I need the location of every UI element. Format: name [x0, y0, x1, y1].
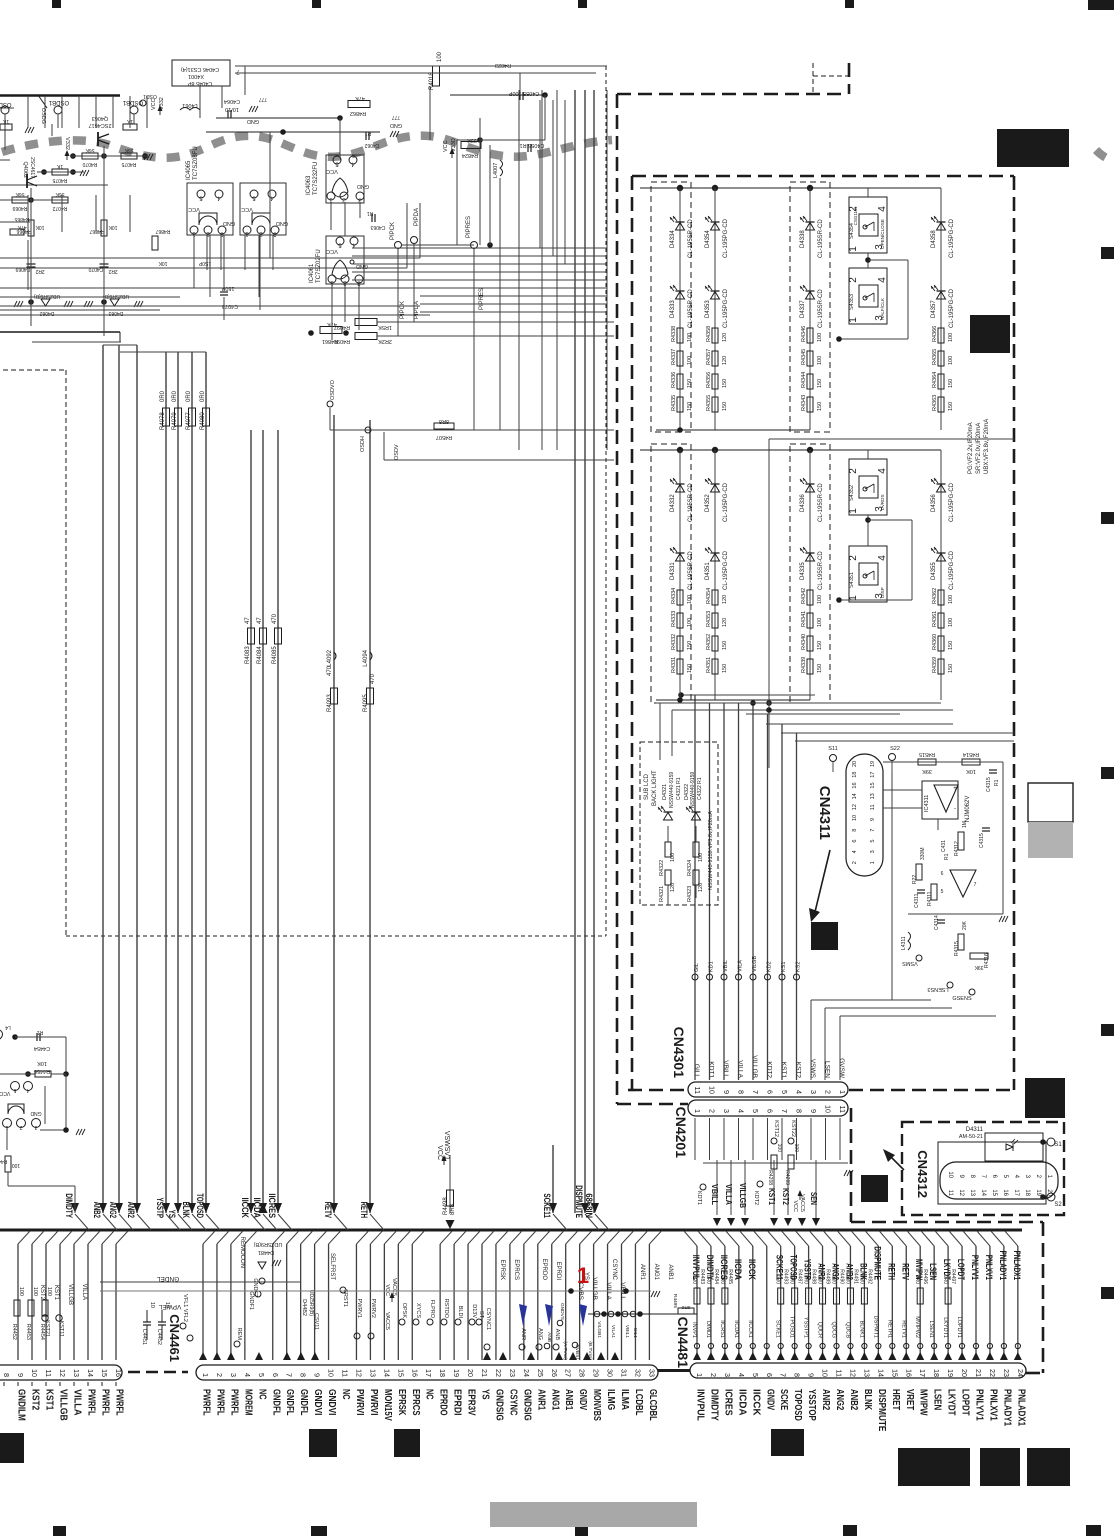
svg-text:8: 8: [2, 1373, 11, 1377]
svg-text:12: 12: [58, 1369, 67, 1377]
svg-text:5: 5: [257, 1373, 266, 1377]
svg-text:0R0: 0R0: [200, 390, 206, 402]
svg-text:10: 10: [821, 1369, 830, 1377]
svg-text:NJM062V: NJM062V: [965, 796, 971, 822]
svg-text:VSMS: VSMS: [902, 960, 918, 966]
svg-text:GIL: GIL: [694, 963, 700, 972]
svg-text:11: 11: [838, 1106, 847, 1113]
svg-text:24: 24: [1016, 1369, 1025, 1377]
svg-text:RETH: RETH: [359, 1202, 369, 1218]
svg-text:1: 1: [201, 1373, 210, 1377]
svg-text:C4070: C4070: [88, 266, 103, 272]
svg-text:REMOCON: REMOCON: [239, 1237, 245, 1268]
svg-text:R4346: R4346: [801, 326, 807, 342]
svg-text:PNLYV1: PNLYV1: [974, 1389, 985, 1421]
svg-text:CL-195SR-CD: CL-195SR-CD: [688, 219, 694, 258]
svg-text:0R0: 0R0: [186, 390, 192, 402]
svg-text:16: 16: [114, 1369, 123, 1377]
svg-text:OSDB1: OSDB1: [48, 99, 69, 105]
svg-text:PIPDA: PIPDA: [414, 301, 420, 319]
svg-text:EPRSK: EPRSK: [396, 1389, 407, 1416]
svg-text:R4334: R4334: [671, 588, 677, 604]
svg-text:LCDBL: LCDBL: [633, 1389, 644, 1416]
svg-text:VCC: VCC: [0, 1090, 10, 1096]
svg-text:L4092: L4092: [327, 649, 333, 666]
svg-text:R4488: R4488: [811, 1269, 817, 1284]
svg-text:R4354: R4354: [706, 588, 712, 604]
svg-text:R4070: R4070: [82, 161, 97, 167]
svg-text:C4062: C4062: [364, 142, 379, 148]
svg-text:TC7SZ02FU: TC7SZ02FU: [316, 249, 322, 283]
svg-text:2: 2: [848, 468, 859, 474]
svg-text:0R0: 0R0: [172, 390, 178, 402]
svg-text:C4315: C4315: [986, 777, 992, 792]
svg-text:DISPMUTE: DISPMUTE: [574, 1185, 584, 1218]
svg-text:150: 150: [948, 402, 954, 411]
svg-text:5: 5: [870, 840, 876, 843]
svg-text:47: 47: [257, 617, 263, 624]
svg-text:C4321 R1: C4321 R1: [676, 777, 682, 800]
svg-text:GNDF1: GNDF1: [248, 1291, 254, 1310]
svg-text:100: 100: [46, 1287, 52, 1296]
svg-text:R4335: R4335: [671, 395, 677, 411]
svg-text:R4515: R4515: [919, 751, 935, 757]
svg-text:0R0: 0R0: [719, 1275, 725, 1284]
svg-text:150: 150: [948, 641, 954, 650]
svg-text:R4331: R4331: [671, 657, 677, 673]
svg-text:29: 29: [592, 1369, 601, 1377]
svg-text:BLNK1: BLNK1: [858, 1321, 864, 1338]
svg-text:17: 17: [424, 1369, 433, 1377]
svg-text:R4069: R4069: [12, 205, 27, 211]
svg-text:D44B2: D44B2: [301, 1299, 307, 1316]
svg-text:10K: 10K: [37, 1060, 47, 1066]
svg-text:CL-195PG-CD: CL-195PG-CD: [723, 482, 729, 522]
svg-text:CL-195SR-CD: CL-195SR-CD: [818, 483, 824, 522]
svg-text:PIPRES: PIPRES: [479, 288, 485, 310]
svg-text:CL-195SR-CD: CL-195SR-CD: [818, 219, 824, 258]
svg-text:VACC5: VACC5: [391, 1278, 397, 1296]
svg-text:V332: V332: [64, 137, 70, 150]
svg-text:D4321: D4321: [662, 784, 668, 800]
svg-text:VBIL1: VBIL1: [624, 1325, 630, 1338]
svg-text:LKYDT1: LKYDT1: [942, 1317, 948, 1338]
svg-text:9: 9: [722, 1090, 731, 1094]
svg-text:NSSW440-9159:VF3.6v,IF20mA: NSSW440-9159:VF3.6v,IF20mA: [708, 811, 714, 890]
svg-text:ANG2: ANG2: [834, 1389, 845, 1410]
svg-text:PNLADX1: PNLADX1: [1015, 1389, 1026, 1426]
svg-text:GNDSIG: GNDSIG: [521, 1389, 532, 1421]
svg-text:11: 11: [693, 1087, 702, 1094]
svg-text:SCKE1: SCKE1: [775, 1320, 781, 1338]
svg-text:PNLADY1: PNLADY1: [1001, 1389, 1012, 1426]
svg-text:ANG: ANG: [537, 1328, 543, 1340]
svg-text:1R5K: 1R5K: [378, 324, 392, 330]
svg-text:VCC: VCC: [326, 248, 338, 254]
svg-text:TOPOSD: TOPOSD: [792, 1389, 803, 1421]
svg-text:EPRDI: EPRDI: [555, 1262, 561, 1281]
svg-text:IC4311: IC4311: [924, 795, 930, 812]
svg-text:KDT2: KDT2: [753, 1191, 759, 1205]
svg-text:0R0: 0R0: [844, 1275, 850, 1284]
svg-text:D4353: D4353: [705, 300, 711, 318]
svg-text:6: 6: [766, 1090, 775, 1094]
svg-text:3: 3: [34, 1124, 37, 1130]
svg-text:CL-195PG-CD: CL-195PG-CD: [949, 550, 955, 590]
svg-text:EPRCS: EPRCS: [513, 1259, 519, 1280]
svg-text:KDT2: KDT2: [766, 1061, 773, 1078]
svg-text:RETV: RETV: [900, 1263, 910, 1280]
svg-text:OPSK: OPSK: [401, 1303, 407, 1319]
svg-text:4: 4: [877, 277, 888, 283]
svg-text:16: 16: [904, 1369, 913, 1377]
svg-text:L4311: L4311: [901, 936, 907, 950]
svg-text:8R8: 8R8: [439, 418, 449, 424]
svg-text:R4337: R4337: [671, 349, 677, 365]
svg-text:TC7S232FU: TC7S232FU: [313, 162, 319, 195]
svg-text:10: 10: [708, 1086, 717, 1094]
svg-text:YSSTOP: YSSTOP: [806, 1389, 817, 1421]
svg-text:120: 120: [722, 595, 728, 604]
svg-text:EPRDO: EPRDO: [541, 1259, 547, 1281]
svg-text:150: 150: [687, 379, 693, 388]
svg-text:120: 120: [698, 883, 704, 892]
svg-text:CL-195SR-CD: CL-195SR-CD: [688, 483, 694, 522]
svg-text:20K: 20K: [962, 920, 968, 930]
svg-text:C431: C431: [941, 840, 947, 852]
svg-text:31: 31: [620, 1369, 629, 1377]
svg-text:R4359: R4359: [932, 657, 938, 673]
svg-text:D4355: D4355: [931, 562, 937, 580]
svg-text:YS: YS: [167, 1210, 177, 1218]
svg-text:PWRFL: PWRFL: [201, 1389, 212, 1416]
svg-text:2: 2: [709, 1373, 718, 1377]
svg-text:R4342: R4342: [801, 588, 807, 604]
svg-text:R4097: R4097: [334, 324, 350, 330]
svg-text:17: 17: [918, 1369, 927, 1377]
svg-text:VILLA: VILLA: [72, 1389, 83, 1416]
svg-text:5: 5: [780, 1090, 789, 1094]
svg-text:R4495: R4495: [672, 1294, 678, 1308]
svg-text:ANG2: ANG2: [108, 1202, 118, 1218]
svg-text:D4354: D4354: [705, 230, 711, 248]
svg-text:RETH: RETH: [886, 1263, 896, 1280]
svg-text:18: 18: [852, 772, 858, 778]
svg-text:150: 150: [817, 641, 823, 650]
svg-text:10K: 10K: [35, 224, 45, 230]
svg-text:KST22: KST22: [790, 1120, 796, 1137]
svg-text:4: 4: [737, 1373, 746, 1377]
svg-text:VPWEL: VPWEL: [158, 1303, 181, 1310]
svg-text:CN4481: CN4481: [675, 1317, 691, 1369]
svg-text:R4311: R4311: [927, 891, 933, 906]
svg-text:DIMD1: DIMD1: [705, 1321, 711, 1338]
svg-text:2: 2: [848, 277, 859, 283]
svg-text:LOPDT1: LOPDT1: [956, 1317, 962, 1338]
svg-text:19: 19: [452, 1369, 461, 1377]
svg-text:VCC: VCC: [151, 98, 157, 110]
svg-text:VILLA: VILLA: [724, 1184, 733, 1205]
svg-text:R4357: R4357: [706, 349, 712, 365]
svg-text:GND: GND: [357, 183, 369, 189]
svg-text:CN4301: CN4301: [671, 1027, 687, 1079]
svg-text:100: 100: [793, 1144, 799, 1153]
svg-text:AM-50-21: AM-50-21: [959, 1134, 983, 1140]
svg-text:11: 11: [341, 1370, 350, 1377]
svg-text:ANG1: ANG1: [653, 1264, 659, 1281]
svg-text:CSG1111: CSG1111: [853, 206, 858, 225]
svg-text:7: 7: [870, 829, 876, 832]
svg-text:R4492: R4492: [866, 1269, 872, 1284]
svg-text:PWRFL: PWRFL: [228, 1389, 239, 1416]
svg-text:S1: S1: [1054, 1142, 1062, 1148]
svg-text:PNLADX1: PNLADX1: [1012, 1251, 1022, 1280]
svg-text:16: 16: [410, 1369, 419, 1377]
svg-text:100: 100: [948, 595, 954, 604]
svg-text:3: 3: [723, 1373, 732, 1377]
svg-text:4: 4: [737, 1109, 746, 1113]
svg-text:ANB2: ANB2: [848, 1389, 859, 1410]
svg-text:CVBS1: CVBS1: [574, 1344, 580, 1360]
svg-text:KST11: KST11: [58, 1321, 64, 1337]
svg-text:R4487: R4487: [797, 1269, 803, 1284]
svg-text:GND: GND: [30, 1110, 42, 1116]
svg-text:1: 1: [848, 246, 859, 252]
svg-text:EPRSK: EPRSK: [499, 1260, 505, 1280]
svg-text:KST2: KST2: [795, 1062, 802, 1079]
svg-text:100: 100: [687, 595, 693, 604]
svg-text:28: 28: [578, 1369, 587, 1377]
svg-text:15: 15: [100, 1369, 109, 1377]
svg-text:VILA1: VILA1: [610, 1325, 616, 1338]
svg-text:18: 18: [1024, 1189, 1030, 1196]
svg-text:R4085: R4085: [272, 646, 278, 664]
svg-text:L4094: L4094: [363, 649, 369, 666]
svg-text:VCC: VCC: [326, 168, 338, 174]
svg-text:UDZ5R6(B): UDZ5R6(B): [34, 293, 60, 299]
svg-text:REM: REM: [236, 1328, 242, 1341]
svg-text:CL-195SR-CD: CL-195SR-CD: [688, 289, 694, 328]
svg-text:IC4063: IC4063: [306, 175, 312, 195]
svg-text:15: 15: [870, 782, 876, 788]
svg-text:7: 7: [780, 1109, 789, 1113]
svg-text:25: 25: [536, 1369, 545, 1377]
svg-text:LKYDT: LKYDT: [946, 1389, 957, 1416]
svg-text:7: 7: [779, 1373, 788, 1377]
svg-text:ANG1: ANG1: [549, 1389, 560, 1410]
svg-text:R4345: R4345: [801, 349, 807, 365]
svg-text:QDCR: QDCR: [817, 1322, 823, 1338]
svg-text:R22: R22: [912, 875, 918, 884]
svg-text:R4023: R4023: [495, 62, 511, 68]
svg-text:GNDSIG: GNDSIG: [493, 1389, 504, 1421]
svg-text:R4366: R4366: [932, 326, 938, 342]
svg-text:KDT1: KDT1: [708, 1061, 715, 1078]
svg-text:VCC: VCC: [436, 1145, 443, 1160]
svg-text:EPRCS: EPRCS: [410, 1389, 421, 1416]
svg-text:12: 12: [958, 1189, 964, 1196]
svg-text:IICCK: IICCK: [750, 1389, 761, 1416]
svg-text:21: 21: [480, 1369, 489, 1377]
svg-text:PWRFL: PWRFL: [100, 1389, 111, 1416]
svg-text:NSSW440-9159: NSSW440-9159: [669, 772, 675, 808]
svg-text:R4358: R4358: [706, 326, 712, 342]
svg-text:V33D: V33D: [451, 138, 457, 152]
svg-text:5: 5: [941, 889, 944, 895]
svg-text:2: 2: [215, 1373, 224, 1377]
svg-text:S2: S2: [1054, 1202, 1062, 1208]
svg-text:R4355: R4355: [706, 395, 712, 411]
svg-text:GNDILM: GNDILM: [16, 1389, 27, 1421]
svg-text:GNDFL: GNDFL: [284, 1389, 295, 1416]
svg-text:PNLADY1: PNLADY1: [998, 1251, 1008, 1280]
svg-text:R4496: R4496: [922, 1269, 928, 1284]
svg-text:YSSTP: YSSTP: [155, 1198, 165, 1219]
svg-text:SUB LCD: SUB LCD: [644, 773, 650, 800]
svg-text:15: 15: [396, 1369, 405, 1377]
svg-text:C4045 8P: C4045 8P: [187, 80, 212, 86]
svg-text:20: 20: [1046, 1189, 1052, 1196]
svg-text:VSWSV1: VSWSV1: [443, 1131, 450, 1160]
svg-text:2R2K: 2R2K: [378, 338, 392, 344]
svg-text:NC: NC: [256, 1389, 267, 1400]
svg-text:100: 100: [687, 356, 693, 365]
svg-text:100: 100: [948, 333, 954, 342]
svg-text:18: 18: [438, 1369, 447, 1377]
svg-text:Q4063: Q4063: [92, 115, 109, 121]
svg-text:R4489: R4489: [825, 1269, 831, 1284]
svg-text:100: 100: [817, 618, 823, 627]
svg-text:0R0: 0R0: [942, 1275, 948, 1284]
svg-text:R4497: R4497: [950, 1269, 956, 1284]
svg-text:ICRES: ICRES: [722, 1389, 733, 1416]
svg-text:LSEN1: LSEN1: [928, 1321, 934, 1338]
svg-text:R4862: R4862: [350, 110, 366, 116]
svg-text:SEN: SEN: [809, 1192, 818, 1205]
svg-text:R4452: R4452: [11, 1324, 17, 1340]
svg-text:OSDV: OSDV: [394, 444, 400, 460]
svg-text:12: 12: [354, 1369, 363, 1377]
svg-text:8: 8: [795, 1109, 804, 1113]
svg-text:BLNK: BLNK: [181, 1202, 191, 1219]
svg-text:CN4312: CN4312: [915, 1150, 930, 1198]
svg-text:R4490: R4490: [839, 1269, 845, 1284]
svg-text:15: 15: [890, 1369, 899, 1377]
svg-text:16: 16: [1002, 1189, 1008, 1196]
svg-text:150: 150: [687, 641, 693, 650]
svg-text:UDZ5R9(B): UDZ5R9(B): [253, 1241, 282, 1247]
svg-text:4: 4: [877, 206, 888, 212]
svg-text:R4344: R4344: [801, 372, 807, 388]
svg-text:R4340: R4340: [801, 634, 807, 650]
svg-text:C4311: C4311: [914, 893, 920, 908]
svg-text:VCC: VCC: [443, 140, 449, 152]
svg-text:TA/RDS: TA/RDS: [880, 494, 885, 511]
svg-text:11: 11: [947, 1190, 953, 1197]
svg-text:D4334: D4334: [670, 230, 676, 248]
svg-text:R4084: R4084: [257, 646, 263, 664]
svg-text:R4514: R4514: [963, 751, 979, 757]
svg-text:27: 27: [564, 1369, 573, 1377]
svg-text:IICCK: IICCK: [240, 1198, 250, 1219]
svg-text:KD2: KD2: [767, 961, 773, 972]
svg-text:VILLA: VILLA: [737, 1060, 744, 1078]
svg-text:6: 6: [766, 1109, 775, 1113]
svg-text:150: 150: [948, 664, 954, 673]
svg-text:C4055 R1: C4055 R1: [520, 142, 545, 148]
svg-text:C4322 R1: C4322 R1: [697, 777, 703, 800]
svg-text:0R0: 0R0: [817, 1275, 823, 1284]
svg-text:RSTDO: RSTDO: [443, 1299, 449, 1319]
svg-text:VILA: VILA: [738, 960, 744, 972]
svg-text:VILLGB: VILLGB: [751, 1055, 758, 1078]
svg-text:100: 100: [670, 853, 676, 862]
svg-text:39K: 39K: [974, 964, 984, 970]
svg-text:MOREM: MOREM: [242, 1389, 253, 1416]
svg-text:(B.TVss): (B.TVss): [587, 1341, 593, 1360]
svg-text:VBILL: VBILL: [710, 1184, 719, 1205]
svg-text:CSYNC: CSYNC: [611, 1259, 617, 1281]
svg-text:100: 100: [817, 333, 823, 342]
svg-text:ANR: ANR: [520, 1328, 526, 1340]
svg-text:R4824: R4824: [462, 152, 478, 158]
svg-text:VBILL: VBILL: [722, 1060, 729, 1078]
svg-text:ANR2: ANR2: [126, 1202, 136, 1218]
svg-text:D4481: D4481: [258, 1249, 274, 1255]
svg-text:3: 3: [870, 850, 876, 853]
svg-text:47K: 47K: [355, 95, 365, 101]
svg-text:15: 15: [991, 1189, 997, 1196]
svg-text:R4364: R4364: [932, 372, 938, 388]
svg-text:14: 14: [86, 1369, 95, 1377]
svg-text:R4341: R4341: [801, 611, 807, 627]
svg-text:24: 24: [522, 1369, 531, 1377]
svg-text:GNDVS: GNDVS: [559, 1303, 565, 1320]
svg-text:KS1: KS1: [781, 962, 787, 972]
svg-text:9: 9: [313, 1373, 322, 1377]
svg-text:150: 150: [722, 379, 728, 388]
svg-text:14: 14: [382, 1369, 391, 1377]
svg-text:R4323: R4323: [687, 886, 693, 902]
svg-text:C4452: C4452: [156, 1329, 162, 1345]
svg-text:20: 20: [960, 1369, 969, 1377]
svg-text:3: 3: [809, 1090, 818, 1094]
svg-text:CSYNC1: CSYNC1: [485, 1308, 491, 1330]
svg-text:UDZ5R9(B): UDZ5R9(B): [308, 1290, 314, 1316]
svg-text:100: 100: [18, 1287, 24, 1296]
svg-text:100: 100: [948, 618, 954, 627]
svg-text:IICDA: IICDA: [733, 1259, 743, 1280]
svg-text:GNDV: GNDV: [764, 1389, 775, 1410]
svg-text:C4064: C4064: [224, 98, 240, 104]
svg-text:VILLGB: VILLGB: [591, 1277, 598, 1300]
svg-text:8R8: 8R8: [681, 1304, 690, 1310]
svg-text:MVIPW: MVIPW: [918, 1389, 929, 1416]
svg-text:2SC4617: 2SC4617: [89, 122, 112, 128]
svg-text:17: 17: [1013, 1189, 1019, 1196]
svg-text:22: 22: [494, 1369, 503, 1377]
svg-text:IICRES: IICRES: [267, 1193, 277, 1218]
svg-text:CL-195PG-CD: CL-195PG-CD: [723, 218, 729, 258]
svg-text:120: 120: [722, 333, 728, 342]
svg-text:D4332: D4332: [670, 494, 676, 512]
svg-text:TOPOSD: TOPOSD: [195, 1193, 205, 1218]
svg-text:OPEN/CLOSE: OPEN/CLOSE: [880, 219, 885, 249]
svg-text:R4093: R4093: [327, 694, 333, 712]
svg-text:23: 23: [508, 1369, 517, 1377]
svg-text:100: 100: [32, 1287, 38, 1296]
svg-text:9: 9: [16, 1373, 25, 1377]
